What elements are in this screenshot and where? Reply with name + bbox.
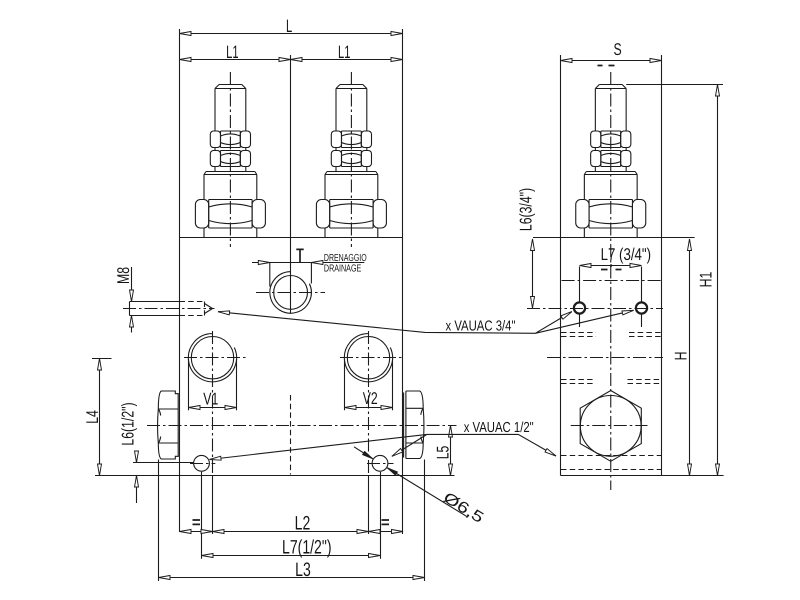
dimension L5: line and arrows	[450, 426, 452, 476]
svg-text:L1: L1	[338, 42, 350, 62]
svg-text:S: S	[614, 40, 622, 59]
port V2: thread arc	[344, 334, 392, 382]
M8 stud: axis centerline	[123, 308, 215, 310]
valve VA2 (front right): base neck	[325, 228, 378, 238]
svg-text:L6(3/4"): L6(3/4")	[517, 188, 536, 231]
valve cartridge VA3 (side view): adjusting stem	[595, 85, 626, 172]
valve VA2 (front right): centerline	[350, 72, 352, 247]
dimension S: line and arrows	[561, 60, 662, 62]
valve VA1 (front left): centerline	[229, 72, 231, 247]
svg-text:L1: L1	[226, 42, 238, 62]
side plug: inscribed circle	[580, 396, 641, 457]
hex plug on right side face (side view of head)	[404, 391, 424, 459]
svg-text:DRAINAGE: DRAINAGE	[324, 263, 362, 274]
H1 top extension line at stem top	[626, 84, 723, 86]
front view block: right edge and extension line	[402, 29, 404, 534]
dimension L7(3/4"): symmetry marks	[601, 269, 622, 271]
side view: hidden thread lines of V-ports (lower pair)	[561, 380, 661, 384]
port T: label T	[296, 249, 303, 262]
L7(3/4"): dashed extension lines down to holes	[580, 267, 642, 328]
valve VA2 (front right): hex body	[330, 200, 373, 229]
svg-text:L2: L2	[295, 513, 311, 535]
svg-text:x VAUAC 1/2": x VAUAC 1/2"	[464, 420, 534, 436]
side ports axis centerline across block	[147, 425, 457, 427]
valve VA3 (side view): upper lock nut	[601, 131, 621, 148]
bottom dimension row (=, L2, =): line	[180, 531, 404, 533]
side view: hidden bottom port line 1	[561, 455, 661, 457]
mounting hole front-right (diam 6.5)	[372, 455, 388, 471]
svg-text:M8: M8	[114, 267, 133, 284]
mounting hole side-right (3/4" pattern)	[636, 302, 647, 313]
leader x VAUAC 1/2": branches to both front holes and side-view bottom	[210, 434, 557, 459]
label = (left)	[193, 520, 201, 524]
valve VA2 (front right): upper lock nut	[342, 131, 362, 148]
front view block: center divider extension line	[290, 55, 292, 314]
valve VA3 (side view): lower lock nut	[601, 151, 621, 167]
port T (drain): bore circle	[274, 276, 308, 310]
dimension H: line and arrows	[689, 239, 691, 476]
dimension V2: extension lines and dimension line	[345, 359, 393, 410]
mounting hole front-right: vertical extension to L7 dim	[380, 472, 382, 559]
port T: extension lines down to circle	[270, 263, 312, 287]
valve VA3 (side view): base neck	[584, 228, 637, 238]
port V1: vertical centerline and extension down to dimensions	[212, 331, 214, 476]
valve cartridge VA1 (front left): adjusting stem	[215, 85, 246, 172]
dimension L7(3/4"): centre mark dot	[610, 264, 613, 267]
leader x VAUAC 3/4": from M8 stud to label then to side-view holes	[218, 310, 634, 333]
side view block: right edge and S extension	[661, 55, 663, 476]
front view block: left edge and extension line	[179, 29, 181, 532]
side plug hex head (face view)	[580, 391, 641, 462]
valve VA1 (front left): body sleeve	[204, 172, 257, 200]
port T (drain): thread arc	[270, 272, 312, 313]
valve VA3 (side view): body sleeve	[584, 172, 637, 200]
valve VA3 (side view): centerline	[610, 72, 612, 490]
dimension L6(1/2"): extension line at hole height	[133, 462, 194, 464]
side view block: top face line with extensions	[533, 237, 695, 239]
leader diameter 6,5: line through front-right hole	[354, 447, 467, 517]
mounting hole front-left: vertical extension to L7 dim	[201, 472, 203, 559]
port V2: vertical centerline and extension down to dimensions	[368, 331, 370, 476]
port T: horizontal centerline	[256, 292, 325, 294]
port V2: horizontal centerline	[340, 357, 402, 359]
svg-text:L6(1/2"): L6(1/2")	[119, 402, 138, 445]
M8 stud: hidden threaded part inside block	[180, 302, 205, 316]
dimension L3: line and arrows	[159, 577, 425, 579]
svg-text:V1: V1	[203, 390, 218, 409]
svg-text:L7 (3/4"): L7 (3/4")	[601, 245, 651, 264]
mounting hole front-left: centerline cross	[190, 463, 215, 465]
hidden bottom port centerline (dashed, front middle)	[290, 395, 292, 475]
dimension L6(3/4"): line and arrows	[532, 239, 534, 308]
axis through side mounting holes + L6(3/4") extension	[527, 308, 663, 310]
dimension M8: shaft and arrows	[131, 267, 133, 333]
mounting hole side-left (3/4" pattern)	[574, 302, 585, 313]
valve VA1 (front left): hex body	[209, 200, 252, 229]
side view block: left edge and S extension	[560, 55, 562, 476]
svg-text:x VAUAC 3/4": x VAUAC 3/4"	[446, 319, 516, 335]
svg-text:L7(1/2"): L7(1/2")	[282, 537, 331, 559]
dimension L3: extension lines	[159, 460, 425, 582]
dimension L1 pair: line	[180, 59, 403, 61]
M8 stud: drill cone tip	[205, 304, 213, 314]
valve VA2 (front right): body sleeve	[325, 172, 378, 200]
side view: hidden bottom port line 2	[561, 469, 661, 471]
svg-text:V2: V2	[363, 389, 378, 408]
dimension H1: line and arrows	[717, 85, 719, 476]
svg-text:L: L	[286, 16, 292, 36]
dimension V1: extension lines and dimension line	[189, 359, 237, 410]
valve VA2 (front right): lower lock nut	[342, 151, 362, 167]
side plug: horizontal centerline	[571, 425, 648, 427]
dimension L7(1/2"): line and arrows	[202, 555, 381, 557]
side view: V-port axis centerline	[547, 357, 663, 359]
svg-text:H1: H1	[696, 272, 715, 288]
valve VA1 (front left): base neck	[204, 228, 257, 238]
front view block: bottom face line with extensions	[95, 475, 455, 477]
front view block: top face line	[180, 237, 403, 239]
port V1: bore circle	[191, 337, 233, 379]
mounting hole front-left (diam 6.5)	[194, 455, 210, 471]
port T: dimension line with drain note underline	[252, 262, 364, 264]
side view block: bottom face line with extensions	[561, 475, 724, 477]
M8 stud: protruding solid part	[130, 302, 180, 316]
dimension L7(3/4"): line and arrows	[580, 265, 642, 267]
mounting hole front-right: centerline cross	[367, 463, 394, 465]
dimension S: symmetry marks	[598, 65, 615, 67]
label = (right)	[382, 520, 390, 524]
valve cartridge VA2 (front right): adjusting stem	[336, 85, 367, 172]
valve VA1 (front left): upper lock nut	[221, 131, 241, 148]
valve VA3 (side view): hex body	[589, 200, 632, 229]
hex plug on left side face (side view of head)	[158, 391, 179, 459]
svg-text:L4: L4	[83, 410, 102, 424]
dimension L4: line and arrows	[99, 359, 101, 476]
side view: upper transverse axis centerline	[562, 280, 663, 282]
side view: hidden thread lines of V-ports (upper pair)	[561, 333, 661, 337]
port V1: thread arc	[188, 334, 236, 382]
svg-text:L5: L5	[434, 446, 453, 460]
port V2: bore circle	[347, 337, 389, 379]
svg-text:L3: L3	[295, 559, 311, 581]
port V1: horizontal centerline	[184, 357, 246, 359]
dimension L6(1/2"): shaft and outside arrows	[136, 452, 138, 503]
valve VA1 (front left): lower lock nut	[221, 151, 241, 167]
dimension L: line	[180, 33, 403, 35]
dimension L4: extension line at port axis height	[92, 358, 112, 360]
svg-text:H: H	[671, 352, 690, 361]
